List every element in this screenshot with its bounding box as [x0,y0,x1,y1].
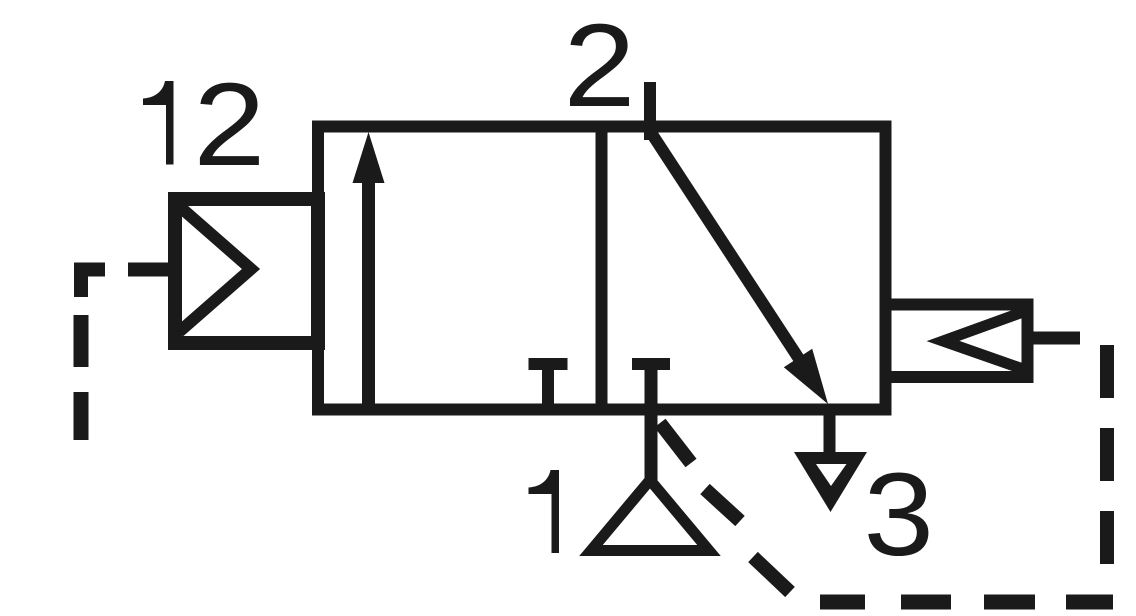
left pilot dashed stub dash 1 [128,263,168,277]
pilot tap diagonal dash A [660,423,691,463]
svg-text:3: 3 [864,449,935,581]
up arrow shaft (left square) [362,178,375,410]
exhaust arrow port 3 inner [816,464,847,486]
svg-text:2: 2 [193,59,265,191]
exhaust arrow port 3 outer [794,452,867,512]
blocked port T left stem [542,364,554,410]
right pilot chevron [943,312,1023,369]
bottom dashed dash 1 [1066,595,1113,610]
bottom dashed dash 2 [984,595,1035,610]
right pilot stub [1032,332,1080,345]
diagonal flow line 2 to 3 [650,131,805,368]
divider between squares [596,127,608,410]
bottom dashed dash 3 [901,595,951,610]
port 1 stem [645,364,658,480]
right dashed vertical dash 1 [1100,345,1114,398]
left pilot chevron [179,206,251,332]
valve body outer rectangle [318,127,886,410]
pilot tap diagonal dash B [705,489,740,521]
pilot tap diagonal dash C [753,557,790,592]
right dashed vertical dash 3 [1100,511,1114,564]
left pilot box [175,199,318,343]
blocked port T port1 crossbar [632,358,670,370]
up arrow head [353,132,385,183]
label 12 digit 1 [143,81,174,165]
left pilot dashed corner [81,270,105,298]
right dashed vertical dash 2 [1100,428,1114,481]
port 3 stem [824,415,836,458]
diagonal arrowhead [784,349,828,404]
label 1 [529,470,560,553]
air supply triangle port 1 [591,480,709,551]
left dashed vertical dash 3 [74,392,89,440]
bottom dashed dash 4 [820,595,865,610]
right pilot box [886,305,1028,378]
blocked port T left [529,358,568,370]
left dashed vertical dash 2 [74,315,89,367]
svg-text:2: 2 [564,0,636,132]
port 2 stub [644,82,656,140]
